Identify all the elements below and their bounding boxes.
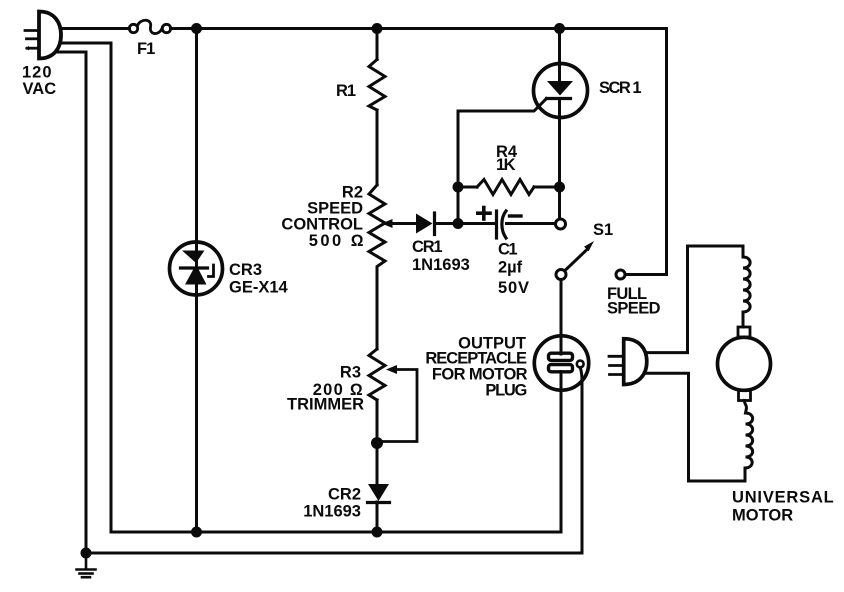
junction dot: SCR anode node	[554, 23, 565, 34]
label CR2 1N1693	[303, 486, 361, 521]
fuse F1	[129, 20, 170, 33]
SCR1	[534, 64, 588, 118]
svg-text:UNIVERSAL: UNIVERSAL	[732, 489, 835, 507]
svg-text:SCR 1: SCR 1	[599, 79, 641, 97]
junction dot: ground node	[81, 548, 92, 559]
R2 wiper arrow	[382, 219, 393, 228]
wire: R2 wiper to CR1	[388, 222, 416, 225]
AC line plug	[25, 12, 61, 59]
svg-text:1K: 1K	[496, 156, 516, 174]
label FULL SPEED	[607, 285, 661, 318]
svg-text:MOTOR: MOTOR	[732, 507, 793, 525]
svg-text:F1: F1	[137, 40, 155, 58]
junction dot: R4 left node	[453, 182, 464, 193]
svg-text:SPEED: SPEED	[607, 300, 661, 318]
wire: motor plug bottom lead	[640, 373, 689, 481]
svg-text:2µf: 2µf	[498, 259, 523, 277]
field winding bottom	[744, 401, 752, 482]
svg-text:1N1693: 1N1693	[412, 256, 470, 274]
motor armature	[718, 337, 771, 390]
wire: R3 to CR2	[376, 400, 379, 484]
svg-text:1N1693: 1N1693	[303, 503, 361, 521]
junction dot: CR1-C1 node	[453, 218, 464, 229]
svg-text:R1: R1	[336, 82, 356, 100]
label R3 200ohm TRIMMER	[287, 364, 364, 414]
svg-text:CR1: CR1	[412, 238, 442, 256]
wire: plug ground lead	[48, 52, 86, 552]
output receptacle	[534, 336, 588, 390]
wire: C1 left lead	[458, 222, 497, 225]
wire: motor loop top	[688, 245, 744, 248]
svg-text:50V: 50V	[498, 279, 530, 297]
svg-text:CR2: CR2	[328, 486, 361, 504]
wire: FULL SPEED terminal lead	[626, 273, 667, 276]
wire: ground bus y=553	[86, 552, 582, 555]
label OUTPUT RECEPTACLE FOR MOTOR PLUG	[425, 335, 527, 400]
svg-text:CONTROL: CONTROL	[281, 216, 363, 234]
wire: CR2 cathode to bottom bus	[376, 502, 379, 532]
svg-text:TRIMMER: TRIMMER	[287, 396, 364, 414]
FULL SPEED terminal	[616, 270, 625, 279]
label CR3 GE-X14	[229, 261, 289, 297]
resistor R4	[477, 180, 534, 195]
label CR1 1N1693	[412, 238, 470, 274]
svg-text:500 Ω: 500 Ω	[309, 232, 366, 250]
field winding top	[743, 246, 750, 327]
wire: motor loop bottom	[689, 480, 746, 483]
motor brush terminal top	[738, 327, 750, 337]
junction dot: R1 top node	[372, 23, 383, 34]
svg-text:GE-X14: GE-X14	[229, 279, 289, 297]
svg-text:C1: C1	[498, 241, 517, 259]
diode CR1	[416, 213, 435, 235]
junction dot: R3 wiper node	[371, 437, 383, 449]
resistor R3 trimmer	[369, 349, 385, 400]
svg-text:R3: R3	[340, 364, 361, 382]
junction dot: R4 right / SCR cathode node	[554, 182, 565, 193]
svg-text:S1: S1	[593, 221, 613, 239]
ground symbol	[77, 553, 96, 577]
wire: SCR cathode down to S1	[558, 99, 561, 220]
label UNIVERSAL MOTOR	[732, 489, 835, 525]
wire: R2 to R3	[376, 271, 379, 349]
motor brush terminal bottom	[739, 391, 751, 401]
junction dot: CR3 bottom node	[191, 527, 202, 538]
wire: bottom return bus y=532	[111, 531, 561, 534]
wire: R4 left lead	[458, 186, 477, 189]
wire: R1 to R2	[376, 110, 379, 185]
wire: ground bus riser to receptacle pin	[580, 368, 582, 553]
svg-text:PLUG: PLUG	[485, 382, 526, 400]
label C1 2uf 50V	[498, 241, 530, 298]
R3 wiper arrow and loop	[383, 365, 417, 442]
wire: right rail down to FULL SPEED	[626, 29, 667, 275]
wire: S1 lower terminal to receptacle	[560, 280, 563, 355]
wire: center column top to R1	[376, 29, 379, 60]
wire: CR1 cathode to node	[435, 222, 459, 225]
motor plug	[609, 339, 647, 385]
junction dot: fuse output node	[191, 23, 202, 34]
diode CR2	[368, 484, 390, 503]
triac CR3 GE-X14	[170, 242, 223, 295]
wire: CR3 branch vertical	[195, 29, 198, 532]
wire: top rail from plug to fuse	[48, 27, 130, 30]
wire: receptacle bottom slot to return bus	[560, 372, 563, 533]
wire: motor plug top lead	[640, 246, 688, 353]
label R4 1K	[496, 143, 518, 174]
wire: top rail fuse to right corner	[171, 27, 667, 30]
wire: SCR anode from top rail	[558, 29, 561, 82]
wire: gate node vertical x=458	[457, 111, 460, 224]
svg-text:120: 120	[22, 64, 53, 82]
svg-text:VAC: VAC	[23, 80, 57, 98]
wire: C1 right lead to S1 terminal	[507, 222, 556, 225]
svg-text:CR3: CR3	[229, 261, 262, 279]
label R2 SPEED CONTROL 500ohm	[281, 184, 366, 251]
wire: SCR gate horizontal	[458, 99, 547, 112]
junction dot: CR2 bottom node	[372, 527, 383, 538]
switch S1	[556, 219, 595, 280]
resistor R2 speed control	[369, 185, 385, 271]
wire: plug middle lead	[48, 43, 111, 532]
capacitor C1	[478, 208, 521, 239]
resistor R1	[369, 60, 385, 111]
label 120 VAC	[22, 64, 56, 99]
wire: R4 right lead	[534, 186, 560, 189]
